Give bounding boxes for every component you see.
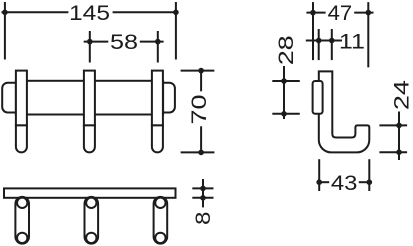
svg-text:70: 70 [188, 95, 211, 125]
dim 145 line left segment [2, 11, 69, 13]
dim 47 left extension line [312, 2, 314, 60]
dim 145 right extension line [175, 2, 177, 60]
dim 70 bottom extension line [181, 151, 215, 153]
hook 3 tip (front view) [152, 125, 163, 152]
svg-text:43: 43 [331, 172, 358, 195]
hook 3 bar (front view) [152, 71, 163, 126]
dim 8 top dot [200, 186, 206, 192]
rail left end cap (front view) [2, 83, 20, 113]
hook 3 bottom circle (bottom view) [155, 233, 165, 243]
dim 47 line right segment [354, 12, 373, 14]
dim 43 line left segment [319, 181, 329, 183]
dim 70 line lower segment [200, 126, 202, 152]
dim 28 bottom dot [281, 111, 287, 117]
dim 43 left extension line [318, 159, 320, 191]
dim 47 line left segment [306, 12, 325, 14]
svg-text:8: 8 [192, 211, 215, 225]
dim 11 left dot [316, 38, 322, 44]
hook 1 bottom circle (bottom view) [17, 233, 27, 243]
hook 2 top circle (bottom view) [86, 198, 96, 208]
hook 2 bar (front view) [84, 71, 95, 126]
dim 11 right extension line [331, 29, 333, 60]
dim 43 right dot [367, 179, 373, 185]
rail cross-section (side view) [313, 81, 323, 114]
rail bar (bottom view) [4, 188, 176, 197]
rail body (front view) [16, 81, 163, 115]
dim 24 bottom extension line [379, 151, 407, 153]
dim 8 top extension line [192, 187, 213, 189]
hook 3 capsule (bottom view) [154, 197, 168, 244]
dim 8 bottom extension line [192, 197, 213, 199]
svg-text:11: 11 [339, 31, 365, 54]
hook 1 capsule (bottom view) [15, 197, 29, 244]
dim 11 right dot [329, 38, 335, 44]
dim 58 right dot [155, 39, 161, 45]
dim 11 line [306, 40, 342, 42]
dim 24 top extension line [379, 124, 407, 126]
dim 58 left extension line [89, 31, 91, 63]
svg-text:28: 28 [275, 35, 298, 65]
svg-text:145: 145 [69, 2, 110, 25]
dim 43 left dot [316, 179, 322, 185]
dim 47 right dot [366, 10, 372, 16]
dim 24 bottom dot [396, 149, 402, 155]
dim 145 left dot [2, 10, 8, 16]
dim 43 line right segment [359, 181, 370, 183]
hook 1 bar (front view) [16, 71, 27, 126]
dim 145 left extension line [4, 2, 6, 60]
dim 47 right extension line [367, 2, 369, 67]
hook 1 top circle (bottom view) [17, 198, 27, 208]
dim 28 top extension line [272, 80, 300, 82]
dim 11 left extension line [318, 29, 320, 60]
svg-text:47: 47 [328, 2, 353, 25]
hook 2 capsule (bottom view) [85, 197, 99, 244]
dim 145 line right segment [113, 11, 179, 13]
rail right end cap (front view) [157, 83, 175, 113]
dim 58 line left segment [84, 41, 109, 43]
hook 1 tip (front view) [16, 125, 27, 152]
dim 58 left dot [87, 39, 93, 45]
hook 2 bottom circle (bottom view) [86, 233, 96, 243]
dim 28 top dot [281, 78, 287, 84]
hook J outline (side view) [319, 71, 370, 152]
svg-text:24: 24 [390, 80, 413, 110]
dim 70 line upper segment [200, 71, 202, 92]
dim 28 line [283, 66, 285, 119]
dim 58 right extension line [157, 31, 159, 63]
dim 47 left dot [310, 10, 316, 16]
dim 24 line [398, 112, 400, 161]
dim 70 top dot [198, 68, 204, 74]
dim 70 top extension line [181, 70, 215, 72]
dim 145 right dot [173, 10, 179, 16]
dim 58 line right segment [140, 41, 164, 43]
svg-text:58: 58 [110, 31, 138, 54]
dim 43 right extension line [368, 159, 370, 191]
hook 2 tip (front view) [84, 125, 95, 152]
dim 8 line [202, 179, 204, 207]
hook 3 top circle (bottom view) [155, 198, 165, 208]
dim 28 bottom extension line [272, 113, 300, 115]
dim 70 bottom dot [198, 150, 204, 156]
dim 24 top dot [396, 123, 402, 129]
dim 8 bottom dot [200, 195, 206, 201]
